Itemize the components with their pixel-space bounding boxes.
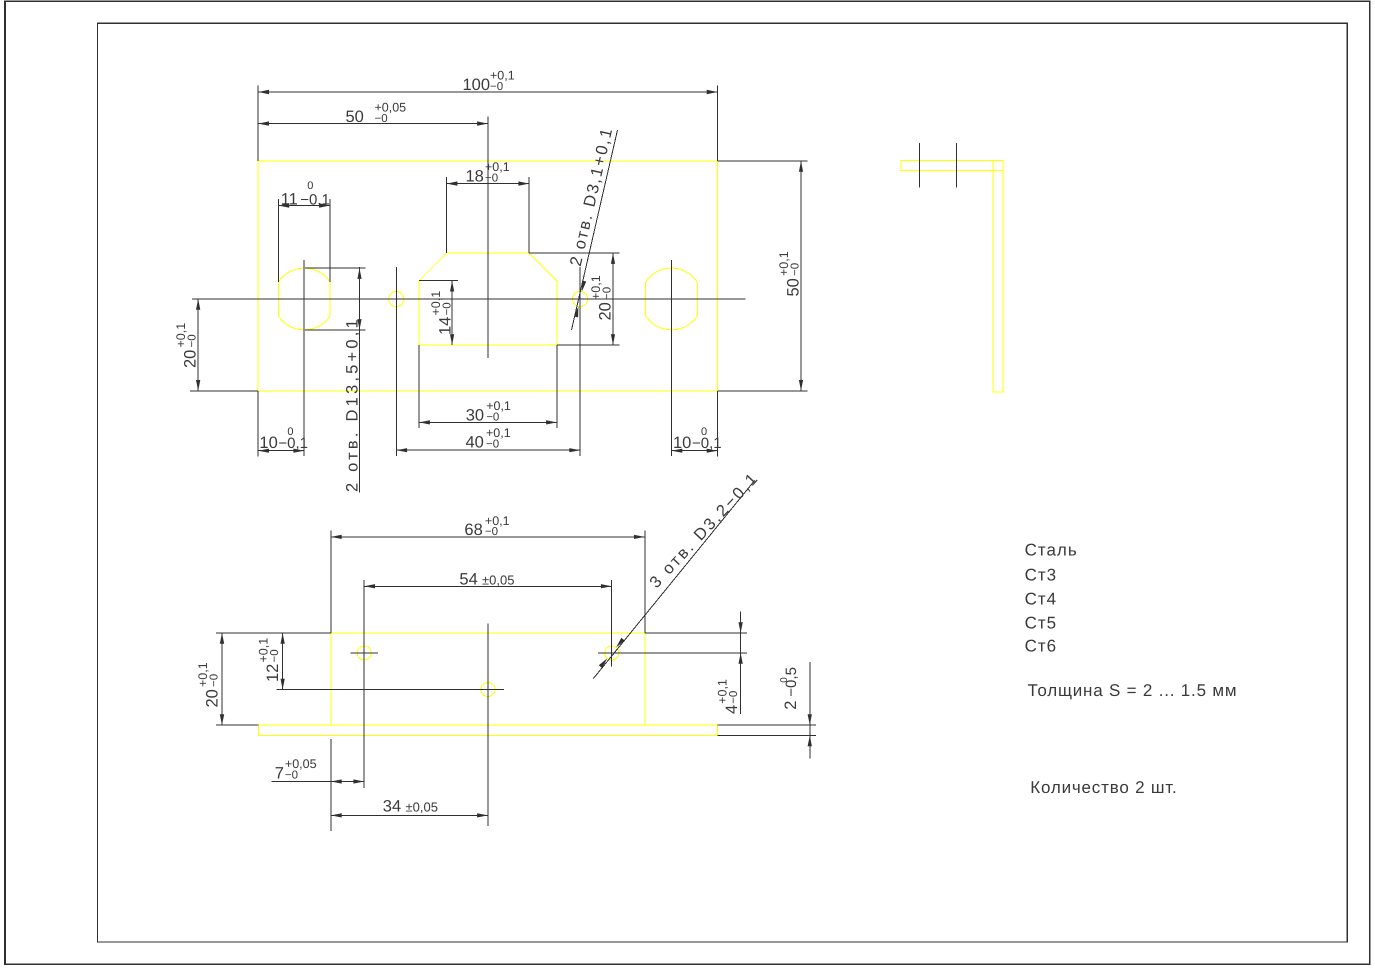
svg-text:20: 20 [597,302,615,320]
leader 3 holes D3,2-0,1 [593,480,754,678]
dimension 20 +0,1/-0 bottom view [216,632,331,634]
svg-text:14: 14 [437,317,455,335]
svg-text:−0: −0 [486,439,499,451]
top view: small hole D3.1 right [573,291,588,306]
dimension 18 +0,1/-0 [446,177,448,253]
svg-text:68: 68 [464,521,482,539]
svg-text:−0: −0 [490,81,503,93]
svg-text:40: 40 [466,434,484,452]
top view: horizontal axis centerline [192,298,745,300]
label 3 отв. D3,2-0,1 [646,469,762,592]
dimension 20 +0,1/-0 left vertical [190,390,258,392]
svg-text:−0: −0 [602,287,614,300]
dimension 30 +0,1/-0 [418,345,420,428]
svg-text:Ст3: Ст3 [1025,566,1058,585]
dimension 10 0/-0,1 bottom-right [717,391,719,457]
svg-text:0: 0 [287,426,293,438]
svg-text:54: 54 [459,571,477,589]
top view: left hole D13.5 with flats [278,268,330,330]
dimension 11 0/-0,1 [277,199,279,282]
dimension 54 ±0,05 [363,580,365,643]
svg-text:4: 4 [723,705,741,714]
top view: right small hole centerline [579,267,581,456]
label 2 отв. D3,1+0,1 [567,125,617,268]
svg-text:2 отв. D3,1+0,1: 2 отв. D3,1+0,1 [567,125,617,268]
svg-text:−0: −0 [728,691,740,704]
svg-text:−0: −0 [442,302,454,315]
dimension 50 +0,05/-0 [258,123,488,125]
dimension 50 +0,1/-0 right vertical [718,160,808,162]
side view: hole centerline tick 1 [918,143,920,187]
bottom view: left hole cross h [351,652,378,654]
svg-text:18: 18 [466,167,484,185]
svg-text:50: 50 [785,278,803,296]
top view: left small hole centerline [395,267,397,456]
svg-text:10: 10 [673,434,691,452]
svg-text:Ст4: Ст4 [1025,590,1058,609]
bottom view: middle hole centerline v [487,623,489,826]
dimension 10 0/-0,1 bottom-left [257,391,259,457]
top view: right hole D13.5 with flats [646,268,698,330]
top view: plate center vertical line [487,116,489,358]
dimension 100 +0,1/-0 [257,86,259,162]
svg-text:Сталь: Сталь [1025,541,1078,560]
bottom view: right hole line h [598,652,747,654]
top view: small hole D3.1 left [389,291,404,306]
label 2 0/-0,5 [779,667,800,710]
dimension 14 +0,1/-0 [419,280,458,282]
dimension 2 0/-0,5 [717,724,816,726]
callout 2 holes D13,5+0,1 [305,267,366,269]
bottom view: base strip 100x2 [258,725,717,736]
label 2 отв. D13,5+0,1 [344,316,362,492]
svg-text:100: 100 [463,76,491,94]
svg-text:−0: −0 [375,113,388,125]
svg-text:−0: −0 [209,674,221,687]
top view: left hole centerline [303,260,305,456]
svg-text:0: 0 [307,180,313,192]
bottom view: body 68x20 [331,633,645,725]
bottom view: hole D3.2 middle [481,683,495,697]
bottom view: hole D3.2 left [357,646,371,660]
svg-text:50: 50 [346,108,364,126]
dimension 12 +0,1/-0 [282,633,284,690]
leader 2 holes D3,1+0,1 [572,130,618,330]
bottom view: left hole centerline v [363,643,365,788]
svg-text:Толщина S = 2 ... 1.5 мм: Толщина S = 2 ... 1.5 мм [1028,681,1238,700]
dimension 34 ±0,05 [331,814,488,816]
svg-text:−0: −0 [485,172,498,184]
svg-text:3 отв. D3,2−0,1: 3 отв. D3,2−0,1 [646,469,762,592]
bottom view: hole D3.2 right [605,646,619,660]
svg-text:11: 11 [281,190,298,208]
svg-text:30: 30 [466,406,484,424]
dimension 40 +0,1/-0 [396,449,580,451]
svg-text:0: 0 [779,677,790,683]
dimension 7 +0,05/-0 [330,739,332,831]
side view: vertical leg [993,160,1003,391]
bottom view: middle hole line h [276,689,504,691]
side view: horizontal flange [901,160,1003,170]
svg-text:Ст5: Ст5 [1025,613,1058,632]
svg-text:12: 12 [264,664,282,682]
top view: plate outline 100x50 [258,161,717,391]
svg-text:−0: −0 [285,769,298,781]
svg-text:2: 2 [782,701,800,710]
dimension 68 +0,1/-0 [330,530,332,633]
svg-text:7: 7 [275,764,284,782]
svg-text:−0,1: −0,1 [300,191,330,208]
bottom view: right hole centerline v [611,580,613,667]
svg-text:−0: −0 [269,649,281,662]
svg-text:34: 34 [383,798,401,816]
svg-text:2 отв. D13,5+0,1: 2 отв. D13,5+0,1 [344,316,362,492]
svg-text:10: 10 [259,434,277,452]
svg-text:±0,05: ±0,05 [482,573,514,588]
svg-text:−0: −0 [485,526,498,538]
svg-text:±0,05: ±0,05 [406,800,438,815]
top view: right hole centerline [671,260,673,456]
side view: hole centerline tick 2 [956,143,958,187]
top view: central cutout 30x20 chamfered [419,253,557,345]
dimension 20 +0,1/-0 at cutout [529,252,619,254]
svg-text:−0: −0 [790,263,802,276]
dimension 4 +0,1/-0 [645,632,747,634]
svg-text:Количество 2 шт.: Количество 2 шт. [1030,778,1177,797]
svg-text:−0: −0 [187,334,199,347]
svg-text:20: 20 [182,350,200,368]
svg-text:Ст6: Ст6 [1025,636,1058,655]
svg-text:0: 0 [701,426,707,438]
svg-text:−0: −0 [486,411,499,423]
svg-text:20: 20 [204,689,222,707]
